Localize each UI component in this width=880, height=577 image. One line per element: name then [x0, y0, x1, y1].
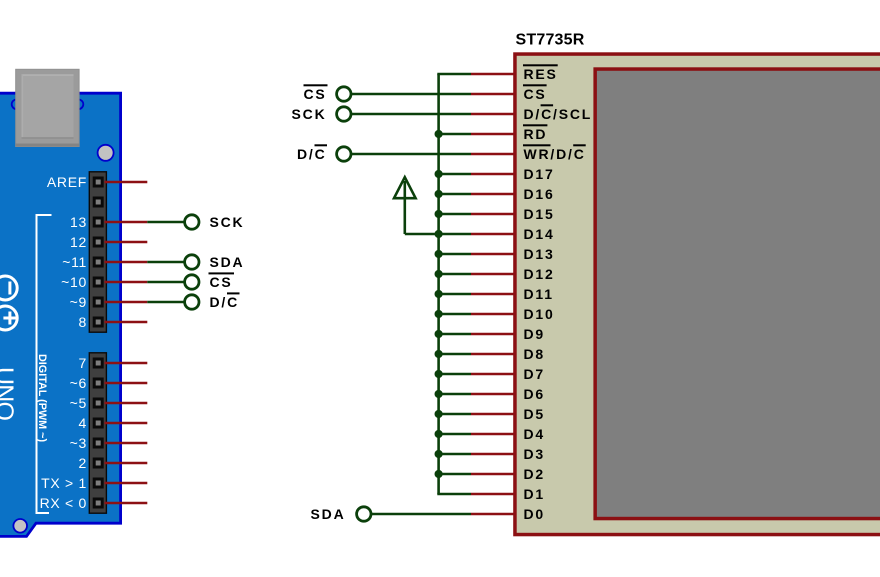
label SDA (bottom) — [311, 506, 346, 522]
pin stub (display) D7 — [471, 373, 514, 376]
USB socket screw bumps — [12, 100, 84, 110]
display pin label D12 — [524, 266, 555, 282]
wire Arduino pin to terminal y=222 — [147, 221, 184, 224]
pin label 7 — [79, 355, 88, 371]
svg-text:D10: D10 — [524, 306, 555, 322]
pin stub (display) D14 — [471, 233, 514, 236]
display pin label WR/D/C — [523, 144, 586, 162]
display pin label RD — [523, 124, 547, 142]
junction y=354 — [435, 350, 443, 358]
power jack polarity symbol — [0, 276, 17, 330]
pin stub (display) D/C/SCL — [471, 113, 514, 116]
svg-text:13: 13 — [70, 214, 87, 230]
pin stub (Arduino) y=463 — [105, 462, 148, 465]
pin stub (display) D5 — [471, 413, 514, 416]
svg-text:RD: RD — [524, 126, 548, 142]
svg-text:D15: D15 — [524, 206, 555, 222]
junction y=394 — [435, 390, 443, 398]
svg-text:UNO: UNO — [0, 367, 18, 421]
display pin label D7 — [524, 366, 546, 382]
mounting hole (top) — [98, 145, 114, 161]
svg-text:D6: D6 — [524, 386, 546, 402]
pin stub (Arduino) y=363 — [105, 362, 148, 365]
junction y=174 — [435, 170, 443, 178]
pin stub (display) D16 — [471, 193, 514, 196]
pin stub (Arduino) y=483 — [105, 482, 148, 485]
pin stub (Arduino) y=403 — [105, 402, 148, 405]
header pin 7 — [93, 358, 104, 369]
pin stub (display) D0 — [471, 513, 514, 516]
svg-text:RX < 0: RX < 0 — [40, 495, 87, 511]
svg-text:D/C: D/C — [210, 294, 240, 310]
wire bus to D12 — [437, 273, 471, 276]
header pin ~11 — [93, 257, 104, 268]
wire bus to D2 — [437, 473, 471, 476]
wire Arduino pin to terminal y=282 — [147, 281, 184, 284]
display pin label D14 — [524, 226, 555, 242]
junction y=334 — [435, 330, 443, 338]
display pin label D10 — [524, 306, 555, 322]
svg-text:~6: ~6 — [70, 375, 87, 391]
Arduino Uno board — [0, 93, 121, 536]
junction y=474 — [435, 470, 443, 478]
pin label RX < 0 — [40, 495, 87, 511]
wire bus to D8 — [437, 353, 471, 356]
pin stub (display) D4 — [471, 433, 514, 436]
display pin label D2 — [524, 466, 546, 482]
svg-text:D12: D12 — [524, 266, 555, 282]
header pin ~3 — [93, 438, 104, 449]
junction y=194 — [435, 190, 443, 198]
wire bus vertical — [437, 74, 440, 494]
DIGITAL (PWM~) silkscreen bracket — [37, 215, 52, 513]
svg-text:D0: D0 — [524, 506, 546, 522]
pin stub (Arduino) y=242 — [105, 241, 148, 244]
svg-text:4: 4 — [79, 415, 88, 431]
label SCK — [210, 214, 245, 230]
header pin 13 — [93, 217, 104, 228]
header pin RX0 — [93, 498, 104, 509]
pin stub (display) D1 — [471, 493, 514, 496]
display pin label D15 — [524, 206, 555, 222]
wire bus to D1 — [437, 493, 471, 496]
svg-text:SDA: SDA — [311, 506, 346, 522]
label D/C (overbar on C) — [210, 292, 240, 310]
svg-text:D/C/SCL: D/C/SCL — [524, 106, 593, 122]
label CS (with overbar) — [209, 272, 235, 290]
svg-text:D/C: D/C — [297, 146, 327, 162]
pin label TX > 1 — [41, 475, 87, 491]
svg-text:D9: D9 — [524, 326, 546, 342]
pin label 12 — [70, 234, 87, 250]
svg-text:D7: D7 — [524, 366, 546, 382]
svg-text:SCK: SCK — [292, 106, 327, 122]
junction y=434 — [435, 430, 443, 438]
wire bus to D5 — [437, 413, 471, 416]
wire CS terminal to display CS — [351, 93, 471, 96]
junction y=274 — [435, 270, 443, 278]
display pin label RES — [523, 64, 558, 82]
svg-text:7: 7 — [79, 355, 88, 371]
ST7735R display body — [515, 54, 880, 535]
terminal SCK (top) — [337, 107, 351, 121]
junction y=314 — [435, 310, 443, 318]
wire bus to D11 — [437, 293, 471, 296]
svg-text:CS: CS — [210, 274, 233, 290]
wire bus to RD — [437, 133, 471, 136]
svg-text:WR/D/C: WR/D/C — [524, 146, 586, 162]
wire bus to D7 — [437, 373, 471, 376]
wire bus to D17 — [437, 173, 471, 176]
label SCK (top) — [292, 106, 327, 122]
pin stub (display) D12 — [471, 273, 514, 276]
terminal D/C — [337, 147, 351, 161]
pin stub (Arduino) y=182 — [105, 181, 148, 184]
wire SCK terminal to D/C/SCL — [351, 113, 471, 116]
display pin label D5 — [524, 406, 546, 422]
pin stub (Arduino) y=222 — [105, 221, 148, 224]
wire bus to D3 — [437, 453, 471, 456]
pin stub (display) CS — [471, 93, 514, 96]
wire bus to D14 — [437, 233, 471, 236]
wire bus to D4 — [437, 433, 471, 436]
junction y=294 — [435, 290, 443, 298]
display pin label D13 — [524, 246, 555, 262]
svg-text:SDA: SDA — [210, 254, 245, 270]
display pin label D/C/SCL — [524, 104, 593, 122]
svg-text:AREF: AREF — [47, 174, 87, 190]
svg-text:D17: D17 — [524, 166, 555, 182]
svg-text:D16: D16 — [524, 186, 555, 202]
pin stub (Arduino) y=282 — [105, 281, 148, 284]
svg-text:~3: ~3 — [70, 435, 87, 451]
display pin label D9 — [524, 326, 546, 342]
mounting hole (bottom) — [13, 519, 27, 533]
svg-text:8: 8 — [79, 314, 88, 330]
wire bus to D6 — [437, 393, 471, 396]
pin label AREF — [47, 174, 87, 190]
svg-text:CS: CS — [303, 86, 326, 102]
wire bus to D10 — [437, 313, 471, 316]
terminal SCK (left) — [185, 215, 199, 229]
pin label 4 — [79, 415, 88, 431]
wire bus to D15 — [437, 213, 471, 216]
pin stub (display) WR/D/C — [471, 153, 514, 156]
pin label ~11 — [62, 254, 87, 270]
junction y=414 — [435, 410, 443, 418]
wire bus to D13 — [437, 253, 471, 256]
display pin label D16 — [524, 186, 555, 202]
display pin label D8 — [524, 346, 546, 362]
pin stub (display) D8 — [471, 353, 514, 356]
svg-text:D3: D3 — [524, 446, 546, 462]
display pin label D0 — [524, 506, 546, 522]
ST7735R screen — [595, 69, 880, 519]
svg-text:TX > 1: TX > 1 — [41, 475, 87, 491]
pin stub (display) D10 — [471, 313, 514, 316]
junction y=454 — [435, 450, 443, 458]
display pin label D3 — [524, 446, 546, 462]
junction y=134 — [435, 130, 443, 138]
terminal CS (left) — [185, 275, 199, 289]
power terminal (arrow) — [394, 177, 439, 234]
terminal SDA (bottom) — [357, 507, 371, 521]
pin label ~10 — [61, 274, 87, 290]
pin stub (Arduino) y=503 — [105, 502, 148, 505]
pin stub (display) D17 — [471, 173, 514, 176]
header pin 12 — [93, 237, 104, 248]
header pin ~6 — [93, 378, 104, 389]
header pin 8 — [93, 317, 104, 328]
display pin label D6 — [524, 386, 546, 402]
pin header lower (7..0) — [89, 353, 106, 513]
pin stub (Arduino) y=423 — [105, 422, 148, 425]
pin label ~3 — [70, 435, 87, 451]
pin stub (display) D15 — [471, 213, 514, 216]
pin label 2 — [79, 455, 88, 471]
svg-text:D2: D2 — [524, 466, 546, 482]
pin stub (Arduino) y=383 — [105, 382, 148, 385]
pin stub (display) D6 — [471, 393, 514, 396]
wire bus to D16 — [437, 193, 471, 196]
pin stub (Arduino) y=322 — [105, 321, 148, 324]
junction y=374 — [435, 370, 443, 378]
junction y=254 — [435, 250, 443, 258]
svg-text:D4: D4 — [524, 426, 546, 442]
svg-text:D5: D5 — [524, 406, 546, 422]
header pin 4 — [93, 418, 104, 429]
display pin label CS — [523, 84, 547, 102]
header pin NC — [93, 197, 104, 208]
pin label ~9 — [70, 294, 87, 310]
svg-text:DIGITAL (PWM ~): DIGITAL (PWM ~) — [36, 354, 48, 442]
pin label ~5 — [70, 395, 87, 411]
display pin label D11 — [524, 286, 554, 302]
pin label 13 — [70, 214, 87, 230]
pin stub (display) D13 — [471, 253, 514, 256]
wire bus to D9 — [437, 333, 471, 336]
wire D/C terminal to WR/D/C — [351, 153, 471, 156]
label D/C (top, overbar on C) — [297, 144, 327, 162]
header pin ~5 — [93, 398, 104, 409]
pin label 8 — [79, 314, 88, 330]
display pin label D1 — [524, 486, 546, 502]
svg-text:CS: CS — [524, 86, 547, 102]
svg-text:ST7735R: ST7735R — [516, 32, 585, 49]
terminal CS (top) — [337, 87, 351, 101]
wire Arduino pin to terminal y=262 — [147, 261, 184, 264]
svg-text:D14: D14 — [524, 226, 555, 242]
svg-text:D13: D13 — [524, 246, 555, 262]
svg-text:~9: ~9 — [70, 294, 87, 310]
display pin label D17 — [524, 166, 555, 182]
part name ST7735R — [516, 32, 585, 49]
USB connector — [16, 69, 79, 146]
svg-text:RES: RES — [524, 66, 558, 82]
svg-text:~11: ~11 — [62, 254, 87, 270]
wire SDA terminal to D0 — [371, 513, 471, 516]
svg-text:D11: D11 — [524, 286, 554, 302]
header pin 2 — [93, 458, 104, 469]
header pin TX1 — [93, 478, 104, 489]
wire Arduino pin to terminal y=302 — [147, 301, 184, 304]
svg-text:~10: ~10 — [61, 274, 87, 290]
terminal D/C (left) — [185, 295, 199, 309]
terminal SDA (left) — [185, 255, 199, 269]
svg-text:12: 12 — [70, 234, 87, 250]
label CS (top, overbar) — [303, 84, 327, 102]
wire bus to RES — [437, 73, 471, 76]
display pin label D4 — [524, 426, 546, 442]
label SDA — [210, 254, 245, 270]
pin stub (Arduino) y=262 — [105, 261, 148, 264]
header pin AREF — [93, 177, 104, 188]
pin stub (display) RES — [471, 73, 514, 76]
junction y=234 — [435, 230, 443, 238]
svg-text:D1: D1 — [524, 486, 546, 502]
svg-text:2: 2 — [79, 455, 88, 471]
pin stub (display) RD — [471, 133, 514, 136]
pin stub (display) D3 — [471, 453, 514, 456]
pin stub (Arduino) y=302 — [105, 301, 148, 304]
svg-text:SCK: SCK — [210, 214, 245, 230]
header pin ~9 — [93, 297, 104, 308]
DIGITAL (PWM~) silkscreen text — [36, 354, 48, 442]
svg-text:D8: D8 — [524, 346, 546, 362]
pin stub (display) D9 — [471, 333, 514, 336]
svg-text:~5: ~5 — [70, 395, 87, 411]
pin stub (display) D2 — [471, 473, 514, 476]
UNO silkscreen text — [0, 367, 18, 421]
header pin ~10 — [93, 277, 104, 288]
junction y=214 — [435, 210, 443, 218]
pin header upper (AREF..8) — [89, 172, 106, 332]
pin stub (Arduino) y=443 — [105, 442, 148, 445]
pin label ~6 — [70, 375, 87, 391]
pin stub (display) D11 — [471, 293, 514, 296]
